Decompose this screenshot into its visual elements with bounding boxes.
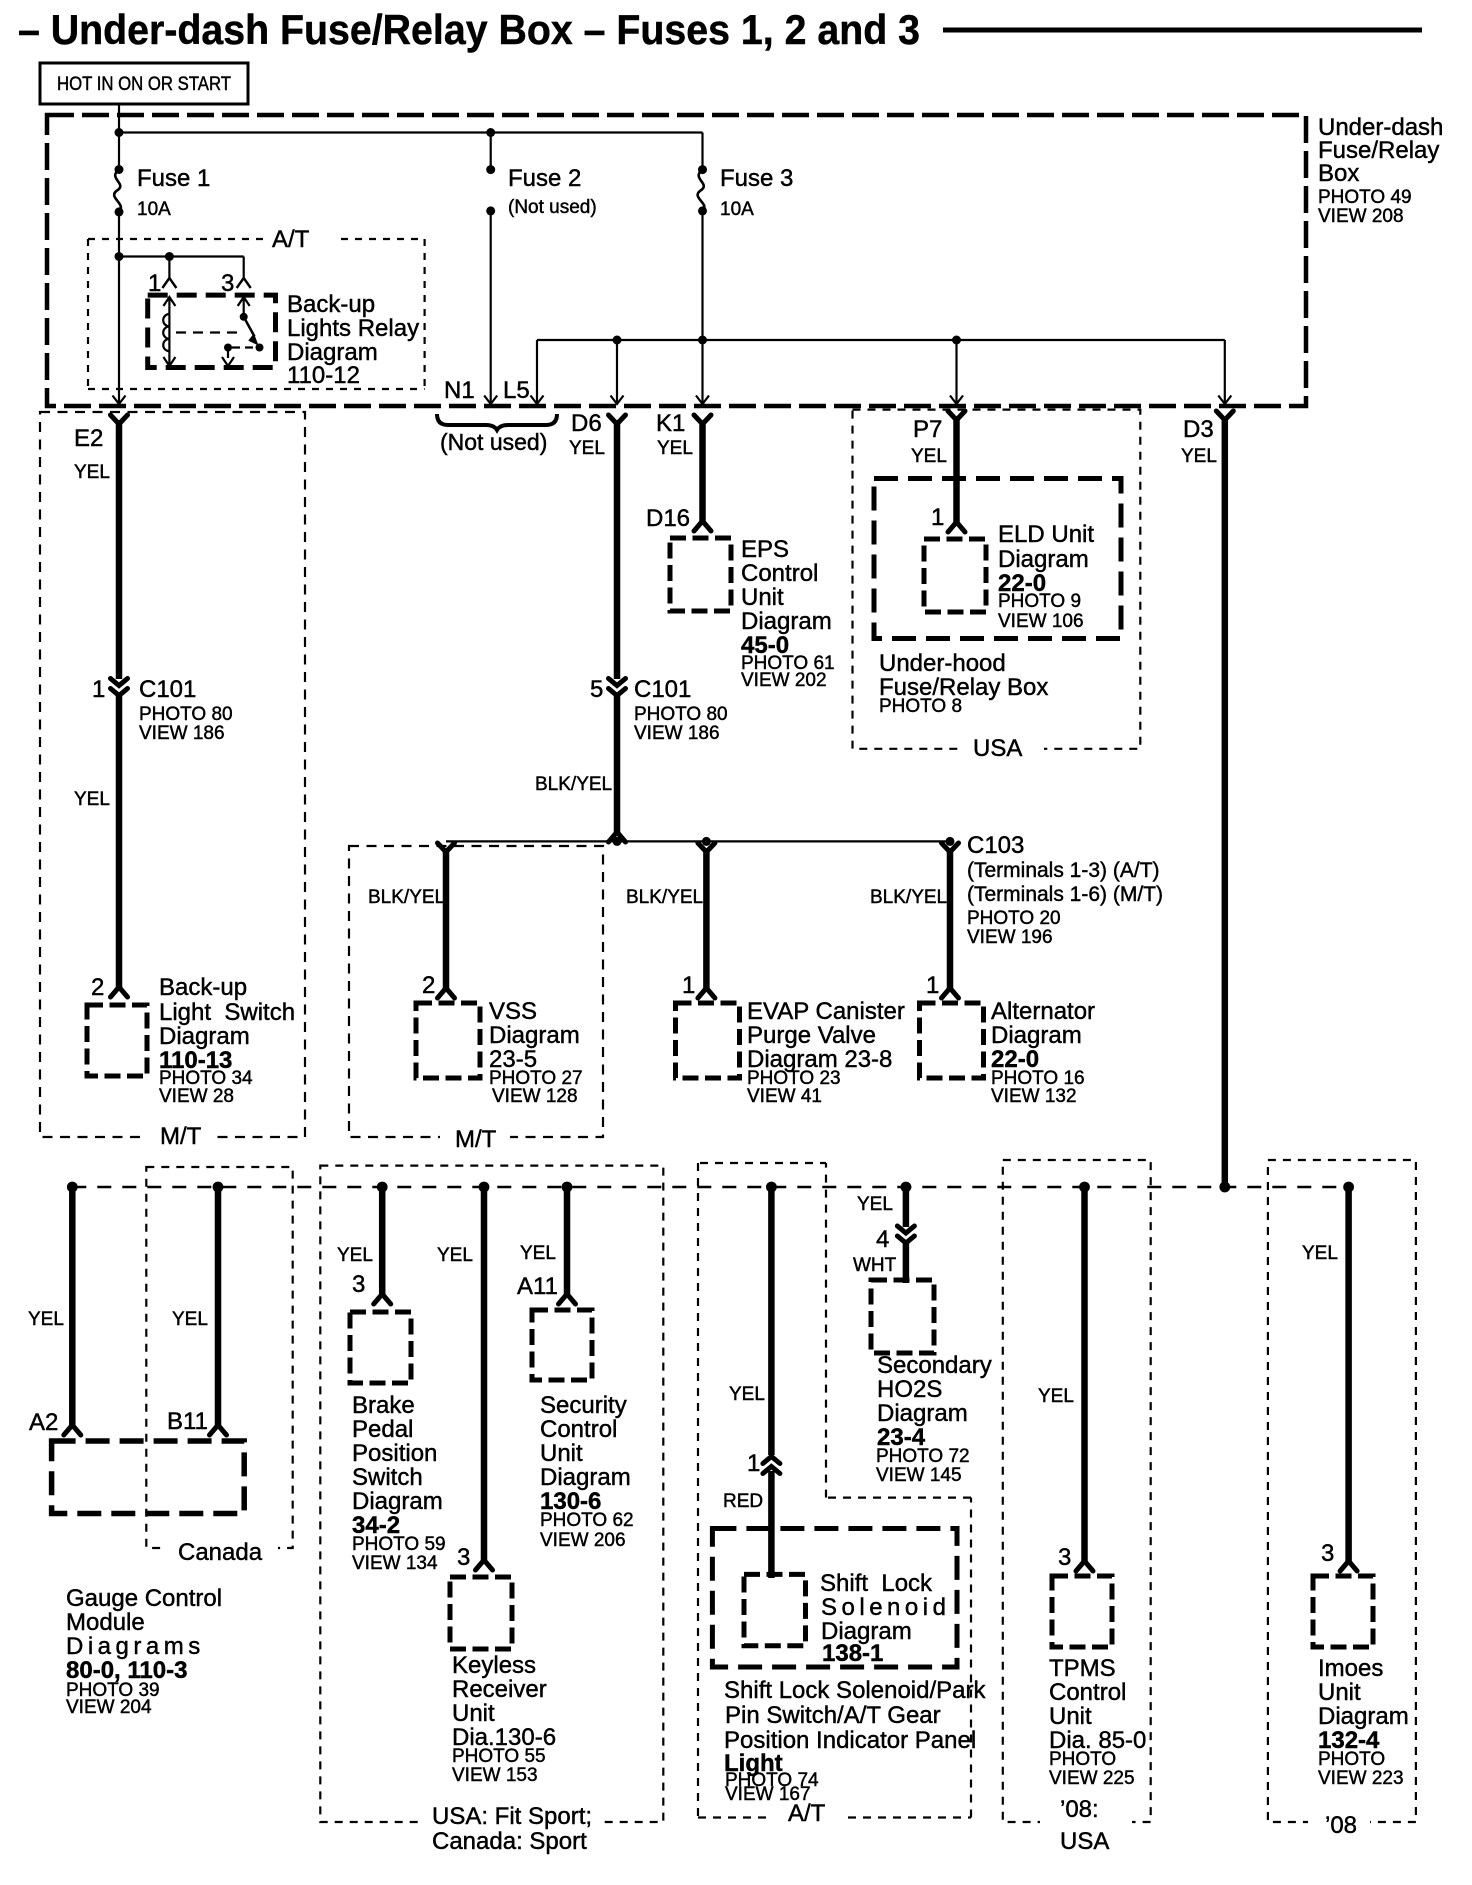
M/T label (middle) (455, 1126, 497, 1153)
wire: rail drop to P7 (955, 340, 957, 404)
node: bus at B11 (213, 1182, 224, 1193)
terminal P7 label (911, 416, 947, 467)
wire: battery feed from HOT tag (118, 104, 120, 134)
wire: fuse 1 input (118, 133, 120, 171)
wire: alternator drop (947, 850, 954, 988)
node: bus at shift lock (766, 1182, 777, 1193)
EVAP label (747, 998, 905, 1107)
node: relay branch (115, 252, 124, 261)
svg-text:PHOTO 62: PHOTO 62 (540, 1510, 634, 1531)
Canada region label (178, 1539, 263, 1566)
wire: relay feed (119, 255, 244, 257)
shift lock solenoid label (820, 1570, 950, 1667)
svg-text:YEL: YEL (437, 1245, 473, 1266)
pin number 2 (91, 974, 104, 1001)
terminal D3 (1216, 411, 1233, 420)
svg-text:Light Switch: Light Switch (159, 999, 295, 1026)
A/T region box (bottom, L-shaped) (698, 1163, 971, 1830)
svg-text:YEL: YEL (657, 438, 693, 459)
svg-text:Control: Control (1049, 1679, 1126, 1706)
pin number 1 alternator (926, 972, 939, 999)
under-dash fuse/relay box label (1318, 114, 1443, 227)
svg-text:E2: E2 (74, 425, 103, 452)
wire: HO2S feed WHT (903, 1243, 910, 1283)
svg-text:PHOTO: PHOTO (1049, 1749, 1116, 1770)
svg-text:1: 1 (92, 676, 105, 703)
ELD unit box (924, 539, 986, 612)
svg-text:VIEW 128: VIEW 128 (492, 1086, 578, 1107)
connector C101 pin 1 labels (92, 676, 233, 744)
VSS box (416, 1003, 480, 1078)
svg-text:2: 2 (422, 972, 435, 999)
svg-text:RED: RED (723, 1491, 763, 1512)
Canada region box (146, 1167, 292, 1562)
svg-text:D16: D16 (646, 505, 690, 532)
node: rail at K1 (698, 336, 707, 345)
wire: brake pedal position switch drop (379, 1187, 386, 1294)
labels TPMS pin (1038, 1386, 1074, 1571)
svg-text:Receiver: Receiver (452, 1676, 547, 1703)
node: D3 at bus (1219, 1182, 1230, 1193)
svg-text:D6: D6 (571, 410, 602, 437)
connector C101 pin 5 labels (590, 676, 728, 744)
terminal K1 (694, 415, 711, 424)
svg-text:C103: C103 (967, 832, 1024, 859)
terminal fork pin 1 (162, 278, 176, 288)
svg-text:Alternator: Alternator (991, 998, 1095, 1025)
label: YEL lower E2 (74, 789, 110, 810)
terminal fork pin 1 alternator (942, 988, 959, 998)
svg-text:Unit: Unit (1049, 1703, 1092, 1730)
svg-text:Diagram: Diagram (877, 1400, 968, 1427)
svg-text:VIEW 167: VIEW 167 (725, 1784, 811, 1805)
label: BLK/YEL VSS (368, 887, 445, 908)
svg-text:Brake: Brake (352, 1392, 415, 1419)
svg-text:Fuse 1: Fuse 1 (137, 165, 210, 192)
svg-text:M/T: M/T (160, 1123, 202, 1150)
svg-text:YEL: YEL (520, 1243, 556, 1264)
terminal fork pin 1 ELD (948, 522, 965, 532)
shift lock solenoid/park pin switch label (724, 1677, 986, 1805)
label: BLK/YEL alternator (870, 887, 947, 908)
svg-text:A/T: A/T (272, 226, 310, 253)
svg-text:PHOTO 20: PHOTO 20 (967, 908, 1061, 929)
wire: top feed rail (119, 131, 703, 133)
M/T region box (middle) (349, 846, 603, 1148)
svg-text:3: 3 (352, 1271, 365, 1298)
svg-text:YEL: YEL (337, 1245, 373, 1266)
svg-text:110-12: 110-12 (287, 362, 360, 389)
svg-text:Switch: Switch (352, 1464, 423, 1491)
svg-text:Diagram: Diagram (998, 546, 1089, 573)
wire: fuse 2 output to N1 (490, 211, 492, 404)
USA region label (973, 735, 1022, 762)
node: bus at HO2S (901, 1182, 912, 1193)
svg-text:Imoes: Imoes (1318, 1655, 1383, 1682)
svg-text:YEL: YEL (74, 462, 110, 483)
secondary HO2S label (876, 1352, 992, 1486)
svg-text:Shift Lock Solenoid/Park: Shift Lock Solenoid/Park (724, 1677, 986, 1704)
svg-text:PHOTO 80: PHOTO 80 (634, 704, 728, 725)
svg-text:VIEW 28: VIEW 28 (159, 1086, 234, 1107)
labels brake pin (337, 1245, 373, 1298)
connector pin 4 HO2S (897, 1226, 914, 1243)
EVAP canister purge valve box (676, 1003, 740, 1078)
svg-text:BLK/YEL: BLK/YEL (535, 774, 612, 795)
Imoes unit label (1318, 1655, 1409, 1789)
node: bus at A2 (67, 1182, 78, 1193)
wire: rail drop to D3 (1224, 340, 1226, 404)
relay switch pin arrow up (238, 297, 250, 306)
svg-text:D3: D3 (1183, 416, 1214, 443)
wire: TPMS drop YEL (1081, 1187, 1088, 1561)
wire: relay output down (227, 348, 229, 359)
wire: distribution rail (537, 339, 1225, 341)
VSS label (489, 998, 583, 1107)
svg-text:2: 2 (91, 974, 104, 1001)
svg-text:Unit: Unit (540, 1440, 583, 1467)
relay coil bottom arrow (163, 357, 175, 366)
gauge control module box (52, 1441, 245, 1514)
wire: relay switch common (243, 297, 245, 317)
svg-text:USA: USA (1060, 1828, 1109, 1855)
svg-text:(Not used): (Not used) (508, 197, 597, 218)
svg-text:HOT IN ON OR START: HOT IN ON OR START (57, 74, 231, 95)
wire: rail drop to K1 (701, 340, 703, 404)
A/T region label (272, 226, 310, 253)
svg-text:VIEW 223: VIEW 223 (1318, 1768, 1404, 1789)
connector C103 fork (942, 843, 959, 852)
node: bus at brake (377, 1182, 388, 1193)
svg-text:Diagram: Diagram (159, 1023, 250, 1050)
svg-text:3: 3 (1321, 1540, 1334, 1567)
label: BLK/YEL EVAP (626, 887, 703, 908)
node: rail at D6 (613, 336, 622, 345)
svg-text:VIEW 132: VIEW 132 (991, 1086, 1077, 1107)
svg-text:VIEW 153: VIEW 153 (452, 1765, 538, 1786)
fuse F2 (not used) terminals (486, 165, 495, 215)
A/T region label (bottom) (788, 1800, 826, 1827)
node: bus at Imoes (1343, 1182, 1354, 1193)
relay coil conductor (168, 297, 170, 366)
svg-text:Control: Control (540, 1416, 617, 1443)
svg-text:Shift Lock: Shift Lock (820, 1570, 933, 1597)
svg-text:’08: ’08 (1325, 1812, 1357, 1839)
node: relay output (224, 344, 232, 352)
svg-text:1: 1 (931, 504, 944, 531)
wire: rail drop to L5 (536, 340, 538, 404)
wire: D6 YEL upper (614, 422, 621, 679)
arrow: D6 (611, 396, 624, 405)
wire: E2 YEL upper (116, 422, 123, 679)
terminal D16 label (646, 505, 690, 532)
svg-text:(Terminals 1-6) (M/T): (Terminals 1-6) (M/T) (967, 883, 1163, 906)
svg-text:PHOTO: PHOTO (1318, 1749, 1385, 1770)
terminal fork A2 (64, 1425, 81, 1435)
node: bus at TPMS (1079, 1182, 1090, 1193)
svg-text:– Under-dash Fuse/Relay Box –: – Under-dash Fuse/Relay Box – Fuses 1, 2… (18, 6, 920, 53)
node: splice at D6 (613, 837, 622, 846)
svg-text:PHOTO 59: PHOTO 59 (352, 1534, 446, 1555)
svg-text:YEL: YEL (1181, 446, 1217, 467)
svg-text:10A: 10A (720, 199, 754, 220)
EPS label (741, 536, 835, 691)
svg-text:Fuse 2: Fuse 2 (508, 165, 581, 192)
node: bus at keyless (479, 1182, 490, 1193)
Imoes region box ('08) (1268, 1160, 1416, 1834)
svg-text:Module: Module (66, 1609, 145, 1636)
svg-text:138-1: 138-1 (822, 1640, 883, 1667)
wire: security control unit drop (564, 1187, 571, 1294)
svg-text:Secondary: Secondary (877, 1352, 992, 1379)
svg-text:Fuse 3: Fuse 3 (720, 165, 793, 192)
svg-text:PHOTO 49: PHOTO 49 (1318, 187, 1412, 208)
keyless receiver unit box (450, 1577, 512, 1649)
terminal fork pin 2 VSS (438, 988, 455, 998)
Imoes region label ('08) (1325, 1812, 1357, 1839)
wire: engine splice rail (446, 840, 950, 842)
svg-text:VIEW 106: VIEW 106 (998, 611, 1084, 632)
svg-text:1: 1 (926, 972, 939, 999)
wire: fuse 3 output (701, 211, 703, 340)
pin number 1 ELD (931, 504, 944, 531)
svg-text:BLK/YEL: BLK/YEL (626, 887, 703, 908)
arrow: D3 (1218, 396, 1231, 405)
terminal D3 label (1181, 416, 1217, 467)
svg-text:VIEW 206: VIEW 206 (540, 1530, 626, 1551)
M/T label (left) (160, 1123, 202, 1150)
svg-text:VIEW 186: VIEW 186 (139, 723, 225, 744)
svg-text:Diagrams: Diagrams (66, 1633, 205, 1660)
svg-text:PHOTO 72: PHOTO 72 (876, 1446, 970, 1467)
svg-text:10A: 10A (137, 199, 171, 220)
svg-text:YEL: YEL (857, 1194, 893, 1215)
svg-text:Solenoid: Solenoid (821, 1594, 950, 1621)
TPMS region label ('08: USA) (1060, 1796, 1109, 1855)
arrow: fuse 1 output to E2 (113, 396, 126, 405)
node: switch contact (256, 344, 264, 352)
svg-text:B11: B11 (167, 1408, 208, 1435)
pin number 1 EVAP (682, 972, 695, 999)
terminal E2 (111, 415, 128, 424)
pin number 3 (221, 270, 234, 297)
terminal E2 label (74, 425, 110, 483)
svg-text:(Not used): (Not used) (440, 429, 547, 455)
svg-text:Unit: Unit (452, 1700, 495, 1727)
svg-text:L5: L5 (503, 377, 530, 404)
svg-text:K1: K1 (656, 410, 685, 437)
fuse F3 label (720, 165, 793, 220)
terminal fork pin 1 EVAP (698, 988, 715, 998)
gauge control module label (66, 1585, 222, 1718)
node: feed at fuse 1 (115, 128, 124, 137)
wire: shift lock feed RED (768, 1471, 775, 1578)
svg-text:PHOTO 80: PHOTO 80 (139, 704, 233, 725)
svg-text:VIEW 204: VIEW 204 (66, 1697, 152, 1718)
wire: lower distribution bus (dashed) (72, 1186, 1348, 1189)
under-dash fuse/relay box (dashed border) (47, 115, 1306, 406)
M/T region box (left) (40, 412, 305, 1148)
svg-text:C101: C101 (139, 676, 196, 703)
svg-text:YEL: YEL (1038, 1386, 1074, 1407)
EPS control unit box (670, 538, 731, 611)
wire: drop to relay pin 3 (243, 257, 245, 279)
wire: keyless receiver drop (481, 1187, 488, 1560)
wire: fuse 2 input (490, 133, 492, 171)
fuse F2 label (508, 165, 597, 218)
TPMS control unit box (1052, 1576, 1112, 1647)
svg-text:VIEW 196: VIEW 196 (967, 927, 1053, 948)
svg-text:BLK/YEL: BLK/YEL (870, 887, 947, 908)
arrow: L5 (531, 396, 544, 405)
node: feed at fuse 2 (486, 128, 495, 137)
alternator box (920, 1003, 984, 1078)
terminal K1 label (656, 410, 693, 459)
fuse F1 label (137, 165, 210, 220)
wire: A2 YEL (69, 1187, 76, 1425)
secondary HO2S box (871, 1280, 934, 1353)
arrow: K1 (696, 396, 709, 405)
relay contact link (dashed) (232, 346, 254, 348)
terminal D6 (609, 415, 626, 424)
svg-text:Back-up: Back-up (159, 974, 247, 1001)
terminal D6 label (569, 410, 605, 459)
TPMS region box (1003, 1160, 1151, 1834)
svg-text:1: 1 (682, 972, 695, 999)
svg-text:Position: Position (352, 1440, 437, 1467)
terminal fork A11 (559, 1294, 576, 1304)
connector C101 pin 5 (609, 679, 626, 696)
wire: D3 YEL long drop (1222, 418, 1229, 1187)
wire: fuse 3 input (701, 133, 703, 171)
svg-text:EVAP Canister: EVAP Canister (747, 998, 905, 1025)
svg-text:(Terminals 1-3) (A/T): (Terminals 1-3) (A/T) (967, 859, 1160, 882)
power tag: HOT IN ON OR START (40, 63, 248, 104)
svg-text:M/T: M/T (455, 1126, 497, 1153)
wire: E2 YEL lower (116, 695, 123, 987)
svg-text:Diagram: Diagram (352, 1488, 443, 1515)
svg-text:YEL: YEL (172, 1309, 208, 1330)
wire: P7 YEL (953, 418, 960, 522)
svg-text:VIEW 41: VIEW 41 (747, 1086, 822, 1107)
svg-text:’08:: ’08: (1060, 1796, 1099, 1823)
svg-text:Unit: Unit (1318, 1679, 1361, 1706)
svg-text:YEL: YEL (911, 446, 947, 467)
terminal fork D16 (694, 521, 711, 531)
svg-text:Diagram: Diagram (489, 1022, 580, 1049)
title rule (943, 28, 1422, 33)
label: (Not used) (440, 429, 547, 455)
label B11 (167, 1309, 208, 1435)
terminal fork pin 3 keyless (476, 1560, 493, 1570)
svg-text:VIEW 134: VIEW 134 (352, 1553, 438, 1574)
svg-text:Security: Security (540, 1392, 627, 1419)
svg-text:YEL: YEL (1302, 1243, 1338, 1264)
svg-text:Under-hood: Under-hood (879, 650, 1006, 677)
security control unit label (540, 1392, 634, 1551)
node: splice at C103 (946, 837, 955, 846)
svg-text:4: 4 (876, 1226, 889, 1253)
relay coil winding (163, 314, 169, 351)
fork: D6 into splice rail (609, 832, 626, 842)
relay label (287, 291, 419, 389)
svg-text:Diagram: Diagram (1318, 1703, 1409, 1730)
fork: EVAP tap (698, 843, 715, 852)
relay actuating link (dashed) (176, 331, 238, 333)
security control unit box (532, 1310, 592, 1380)
svg-text:Pin Switch/A/T Gear: Pin Switch/A/T Gear (725, 1702, 941, 1729)
pin number 2 VSS (422, 972, 435, 999)
wire: Imoes drop YEL (1345, 1187, 1352, 1561)
wire: fuse 1 output (118, 212, 120, 404)
svg-text:YEL: YEL (729, 1384, 765, 1405)
svg-text:3: 3 (1058, 1544, 1071, 1571)
terminal fork pin 3 brake (374, 1294, 391, 1304)
svg-text:N1: N1 (444, 377, 475, 404)
arrow: P7 (950, 396, 963, 405)
shift lock solenoid inner box (744, 1574, 806, 1645)
svg-text:PHOTO 9: PHOTO 9 (998, 591, 1081, 612)
node: relay pin 1 branch (165, 252, 174, 261)
alternator label (991, 998, 1095, 1107)
N1 label (444, 377, 475, 404)
under-hood fuse/relay box border (874, 479, 1121, 639)
svg-text:Diagram: Diagram (540, 1464, 631, 1491)
terminal fork pin 3 TPMS (1076, 1561, 1093, 1571)
labels security pin (517, 1243, 558, 1300)
labels Imoes pin (1302, 1243, 1338, 1567)
terminal fork pin 3 Imoes (1340, 1561, 1357, 1571)
relay switch blade (244, 317, 259, 346)
svg-text:ELD Unit: ELD Unit (998, 521, 1094, 548)
relay output arrow (222, 357, 234, 366)
svg-text:Diagram: Diagram (991, 1022, 1082, 1049)
terminal P7 (948, 411, 965, 420)
wire: shift lock feed YEL (768, 1187, 775, 1455)
title: Under-dash Fuse/Relay Box - Fuses 1, 2 and 3 (18, 6, 920, 53)
svg-text:VIEW 225: VIEW 225 (1049, 1768, 1135, 1789)
svg-text:HO2S: HO2S (877, 1376, 942, 1403)
shift lock solenoid outer box (712, 1529, 957, 1668)
svg-text:Gauge Control: Gauge Control (66, 1585, 222, 1612)
Imoes unit box (1313, 1576, 1373, 1647)
back-up light switch box (87, 1005, 147, 1076)
svg-text:TPMS: TPMS (1049, 1655, 1116, 1682)
connector pin 1 shift lock (763, 1457, 780, 1474)
svg-text:A11: A11 (517, 1273, 558, 1300)
svg-text:BLK/YEL: BLK/YEL (368, 887, 445, 908)
wire: HO2S feed YEL (903, 1187, 910, 1227)
wire: EVAP drop (703, 850, 710, 988)
label: BLK/YEL D6 (535, 774, 612, 795)
svg-text:Control: Control (741, 560, 818, 587)
arrow: fuse 2 output at N1 (484, 396, 497, 405)
node: switch pivot (240, 313, 248, 321)
svg-text:VIEW 145: VIEW 145 (876, 1465, 962, 1486)
USA Fit Sport region label (432, 1803, 592, 1855)
wire: VSS drop (443, 850, 450, 988)
svg-text:P7: P7 (913, 416, 942, 443)
brake pedal position switch box (350, 1312, 411, 1383)
svg-text:VSS: VSS (489, 998, 537, 1025)
keyless receiver unit label (452, 1652, 556, 1786)
svg-text:EPS: EPS (741, 536, 789, 563)
relay coil pin arrow up (163, 297, 175, 306)
svg-text:USA: USA (973, 735, 1022, 762)
under-hood fuse/relay box label (879, 650, 1048, 717)
svg-text:USA: Fit Sport;: USA: Fit Sport; (432, 1803, 592, 1830)
svg-text:Box: Box (1318, 160, 1359, 187)
